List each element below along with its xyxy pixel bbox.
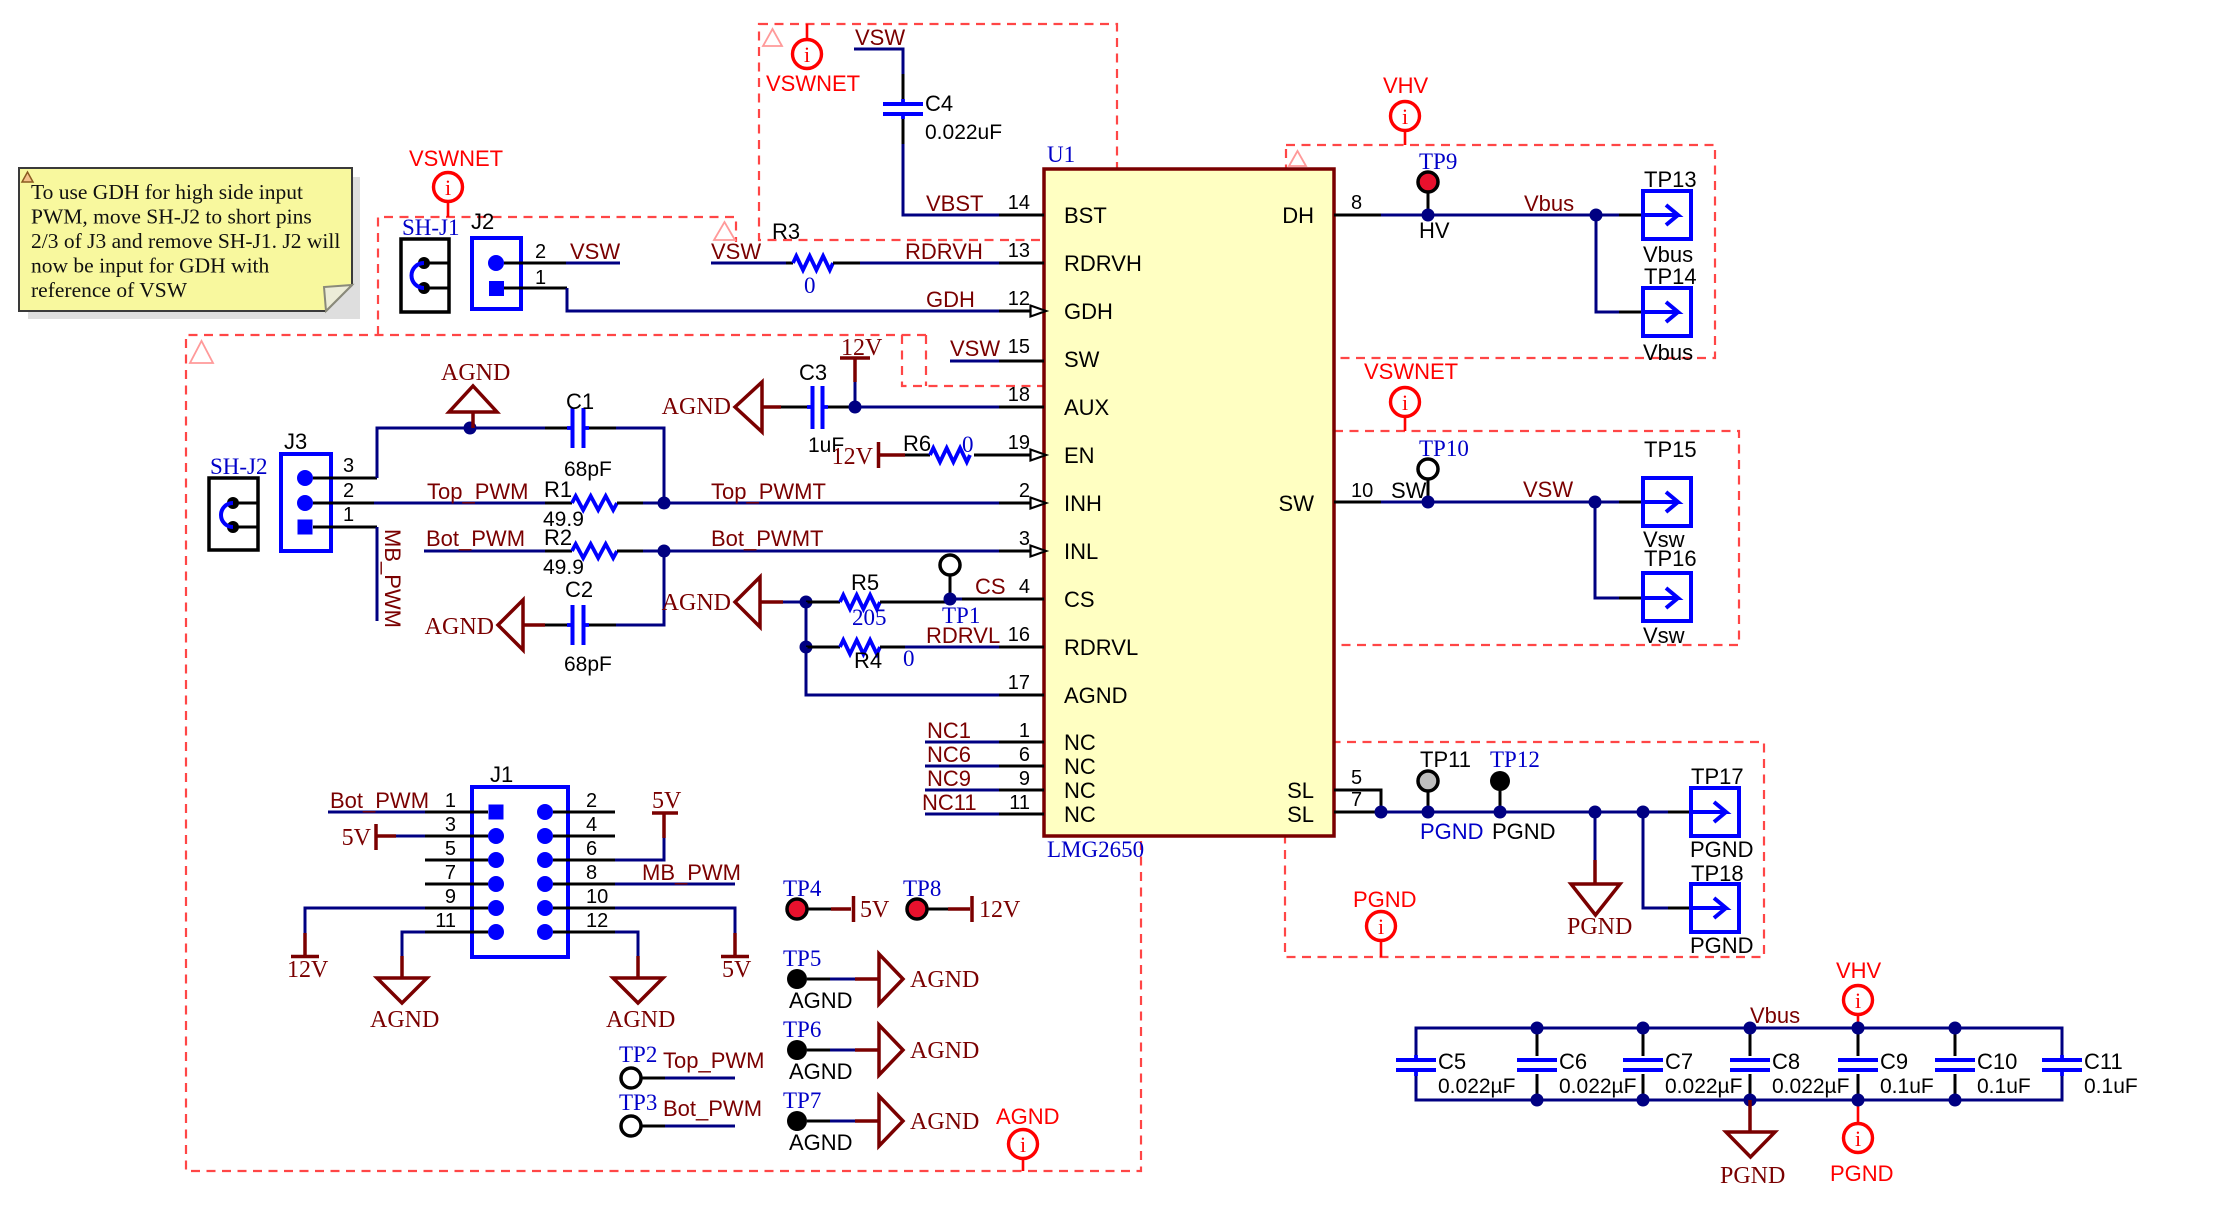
svg-text:INH: INH [1064,491,1102,516]
svg-text:PGND: PGND [1690,933,1754,958]
blanket region box PGND (SL) [1285,742,1764,957]
svg-text:NC6: NC6 [927,742,971,767]
svg-text:2: 2 [1019,480,1030,502]
svg-text:C10: C10 [1977,1049,2017,1074]
pin stub RDRVL 16 [999,646,1044,649]
svg-text:TP16: TP16 [1644,546,1697,571]
net class symbol VSWNET (SW box) [1404,416,1407,431]
svg-text:49.9: 49.9 [543,556,584,579]
wire VSW down to TP16 [1595,502,1619,598]
pin stub RDRVH 13 [999,262,1044,265]
J1 left pin stubs [425,811,488,814]
svg-text:C6: C6 [1559,1049,1587,1074]
svg-text:11: 11 [435,910,456,932]
pin stub NC 6 [999,765,1044,768]
svg-text:SW: SW [1279,491,1315,516]
junction SL pins [1375,806,1388,819]
svg-text:C9: C9 [1880,1049,1908,1074]
svg-text:AGND: AGND [789,988,853,1013]
capacitor C1 [545,427,567,430]
ground AGND (TP5, right arrow) [855,977,879,981]
svg-text:Top_PWM: Top_PWM [427,479,528,504]
svg-text:Vsw: Vsw [1643,623,1685,648]
pin stub NC 11 [999,813,1044,816]
svg-text:14: 14 [1008,192,1030,214]
svg-text:GDH: GDH [1064,299,1113,324]
pin stub NC 1 [999,741,1044,744]
svg-text:U1: U1 [1047,142,1075,167]
power symbol 12V (above C3) [840,356,870,360]
power symbol 5V (sideways, J1.3) [374,824,378,850]
svg-text:VSW: VSW [570,239,620,264]
svg-text:TP2: TP2 [619,1042,657,1067]
wire R4 to RDRVL pin [905,646,999,649]
svg-text:9: 9 [1019,768,1030,790]
resistor R2 [545,550,572,553]
svg-text:i: i [1855,1126,1861,1151]
svg-text:TP10: TP10 [1419,436,1469,461]
svg-text:VBST: VBST [926,191,983,216]
wire TP2 Top_PWM [665,1077,735,1080]
svg-text:8: 8 [1351,192,1362,214]
wire Bot_PWM to J1.1 [328,811,425,814]
svg-text:TP3: TP3 [619,1090,657,1115]
wire J1.12 to AGND [615,932,638,956]
svg-text:C4: C4 [925,91,953,116]
svg-text:NC: NC [1064,802,1096,827]
svg-text:12: 12 [586,910,608,932]
svg-text:5V: 5V [722,957,752,983]
svg-text:12V: 12V [979,897,1021,923]
svg-text:TP4: TP4 [783,876,822,901]
svg-text:8: 8 [586,862,597,884]
svg-text:BST: BST [1064,203,1107,228]
blanket region big box (AGND region) [186,335,1141,1171]
sticky note [19,168,352,311]
net class symbol VSWNET (top box) [806,24,809,40]
capacitor C7 [1642,1028,1645,1056]
svg-text:0.1uF: 0.1uF [1880,1075,1934,1098]
wire Bot_PWM to R2 [424,550,545,553]
svg-text:RDRVH: RDRVH [1064,251,1142,276]
svg-text:SH-J2: SH-J2 [210,454,268,479]
svg-text:SL: SL [1287,778,1314,803]
svg-text:VHV: VHV [1383,73,1429,98]
svg-text:NC9: NC9 [927,766,971,791]
svg-text:Vbus: Vbus [1643,340,1693,365]
svg-text:SW: SW [1064,347,1100,372]
svg-text:DH: DH [1282,203,1314,228]
svg-text:68pF: 68pF [564,653,612,676]
svg-text:GDH: GDH [926,287,975,312]
svg-text:5V: 5V [342,825,372,851]
svg-text:J1: J1 [490,762,513,787]
capacitor C2 [589,624,616,627]
wire R2 to INL pin [643,550,999,553]
junction TP17/18 split [1637,806,1650,819]
svg-text:PGND: PGND [1830,1161,1894,1186]
pin stub GDH 12 [999,310,1032,313]
svg-text:9: 9 [445,886,456,908]
svg-text:AGND: AGND [789,1130,853,1155]
svg-text:Bot_PWM: Bot_PWM [426,526,525,551]
svg-text:4: 4 [586,814,597,836]
wire Vbus down to TP14 [1596,215,1619,312]
svg-text:VSW: VSW [1523,477,1573,502]
ground AGND (TP7, right arrow) [855,1119,879,1123]
wire J3.3 up to C1 net [377,428,545,478]
svg-text:C7: C7 [1665,1049,1693,1074]
wire J1.8 MB_PWM [615,883,735,886]
svg-text:RDRVH: RDRVH [905,239,983,264]
wire TP3 Bot_PWM [665,1125,735,1128]
svg-text:NC: NC [1064,730,1096,755]
junction TP10/SW [1422,496,1435,509]
wire R1 to INH pin [643,502,999,505]
wire SL to PGND/TP17 [1381,811,1668,814]
svg-text:J3: J3 [284,429,307,454]
ground AGND (left of R5) [735,577,760,627]
svg-text:AGND: AGND [662,590,731,616]
svg-text:19: 19 [1008,432,1030,454]
svg-text:now be input for GDH with: now be input for GDH with [31,254,270,278]
net class symbol PGND (SL box) [1380,941,1383,957]
pin stub EN 19 with wire from R6 [974,454,1032,457]
ground AGND (below J1 left) [400,956,404,978]
svg-text:3: 3 [1019,528,1030,550]
wire INL junction down to C2 [616,551,664,625]
junction R5 left [800,596,813,609]
svg-text:16: 16 [1008,624,1030,646]
resistor R6 [905,454,930,457]
svg-text:2: 2 [586,790,597,812]
svg-text:Bot_PWM: Bot_PWM [663,1096,762,1121]
svg-text:1: 1 [1019,720,1030,742]
svg-text:12V: 12V [287,957,329,983]
svg-text:LMG2650: LMG2650 [1047,837,1144,862]
wire NC6 [925,765,999,768]
svg-text:17: 17 [1008,672,1030,694]
svg-text:Bot_PWMT: Bot_PWMT [711,526,823,551]
svg-text:R4: R4 [854,648,882,673]
svg-text:SL: SL [1287,802,1314,827]
note corner triangle [22,172,33,182]
capacitor C10 [1954,1028,1957,1056]
capacitor C5 [1396,1058,1436,1062]
svg-text:i: i [804,42,810,67]
ground AGND (left of C3) [735,382,762,432]
svg-text:7: 7 [445,862,456,884]
wire junction down to R4 [805,602,808,647]
svg-text:18: 18 [1008,384,1030,406]
svg-text:2/3 of J3 and remove SH-J1. J2: 2/3 of J3 and remove SH-J1. J2 will [31,229,340,253]
resistor R4 [806,646,840,649]
junction AUX/12V [849,401,862,414]
wire C1 right to INH net [616,428,664,503]
svg-text:NC1: NC1 [927,718,971,743]
test point TP1 [940,555,960,575]
svg-text:EN: EN [1064,443,1095,468]
svg-text:AGND: AGND [606,1007,675,1033]
net class symbol AGND (big box) [1022,1158,1025,1171]
svg-text:Top_PWM: Top_PWM [663,1048,764,1073]
svg-text:4: 4 [1019,576,1030,598]
svg-text:RDRVL: RDRVL [926,623,1000,648]
svg-text:0: 0 [903,646,915,671]
svg-text:RDRVL: RDRVL [1064,635,1138,660]
capacitor C3 [781,406,807,409]
svg-text:AGND: AGND [441,360,510,386]
net class symbol VHV (DH box) [1404,131,1407,145]
svg-text:AGND: AGND [425,614,494,640]
svg-text:CS: CS [975,574,1006,599]
svg-text:3: 3 [343,455,354,477]
svg-text:VSWNET: VSWNET [766,71,860,96]
svg-text:5V: 5V [652,788,682,814]
svg-text:To use GDH for high side input: To use GDH for high side input [31,180,303,204]
capacitor C11 [2042,1058,2082,1062]
svg-text:0: 0 [804,273,816,298]
wire 5V down to J1.6 [615,838,664,860]
svg-text:TP6: TP6 [783,1017,821,1042]
ground AGND (TP6, right arrow) [855,1048,879,1052]
pin stub NC 9 [999,789,1044,792]
svg-text:TP5: TP5 [783,946,821,971]
svg-text:C3: C3 [799,360,827,385]
wire VSW at J2 pin2 [566,262,620,265]
svg-text:5: 5 [1351,767,1362,789]
ground AGND (below J1 right) [636,956,640,978]
svg-text:MB_PWM: MB_PWM [642,860,741,885]
pin input arrow EN [1031,450,1047,461]
svg-text:Vbus: Vbus [1750,1003,1800,1028]
svg-text:2: 2 [535,241,546,263]
svg-text:C2: C2 [565,577,593,602]
svg-text:NC11: NC11 [922,790,977,815]
svg-text:Vbus: Vbus [1524,191,1574,216]
svg-text:C1: C1 [566,389,594,414]
svg-text:C11: C11 [2084,1049,2123,1074]
svg-text:i: i [1402,390,1408,415]
blanket region box VHV (DH/Vbus) [1286,145,1715,358]
note shadow [28,177,360,319]
net class symbol PGND (cap bank) [1857,1100,1860,1124]
svg-text:TP15: TP15 [1644,437,1697,462]
svg-text:TP13: TP13 [1644,167,1697,192]
power symbol 12V (sideways, R6) [877,442,881,468]
jumper SH-J1 [401,239,449,312]
svg-text:i: i [445,175,451,200]
svg-text:AGND: AGND [1064,683,1128,708]
svg-text:TP11: TP11 [1420,747,1471,772]
junction TP9/DH [1422,209,1435,222]
wire C3/12V to AUX pin [855,406,999,409]
wire SW to VSW [1381,501,1619,504]
junction TP1/CS [944,593,957,606]
svg-text:1: 1 [445,790,456,812]
wire VSW to C4 [854,49,903,74]
svg-text:6: 6 [586,838,597,860]
wire J1.10 to 5V [615,908,735,933]
svg-text:C8: C8 [1772,1049,1800,1074]
capacitor C4 [902,74,905,99]
pin stub SW 10 [1334,501,1381,504]
cap bank top bus Vbus [1416,1028,2062,1056]
svg-text:5V: 5V [860,897,890,923]
svg-text:MB_PWM: MB_PWM [380,529,405,628]
J1 right pin stubs [553,811,615,814]
svg-text:TP14: TP14 [1644,264,1697,289]
svg-text:13: 13 [1008,240,1030,262]
svg-text:AGND: AGND [910,1038,979,1064]
svg-text:AUX: AUX [1064,395,1110,420]
svg-text:AGND: AGND [662,394,731,420]
svg-text:TP8: TP8 [903,876,941,901]
svg-text:AGND: AGND [370,1007,439,1033]
connector J3 [281,454,331,551]
svg-text:Bot_PWM: Bot_PWM [330,788,429,813]
note dog-ear [324,285,352,311]
svg-text:NC: NC [1064,754,1096,779]
junction R4 left [800,641,813,654]
pin stub SL 7 [1334,811,1381,814]
svg-text:C5: C5 [1438,1049,1466,1074]
wire NC11 [925,813,999,816]
svg-text:VSWNET: VSWNET [409,146,503,171]
junction AGND stem / C1 wire [464,422,477,435]
capacitor C9 [1857,1028,1860,1056]
wire AGND net down to pin17 [806,647,999,695]
blanket region box VSWNET (SW/Vsw) [1334,431,1739,645]
pin stub AGND 17 [999,694,1044,697]
svg-text:i: i [1020,1132,1026,1157]
wire 12V to AUX junction [854,382,857,407]
svg-text:HV: HV [1419,218,1450,243]
svg-text:0.1uF: 0.1uF [2084,1075,2138,1098]
wire NC9 [925,789,999,792]
svg-text:R3: R3 [772,219,800,244]
svg-text:i: i [1402,104,1408,129]
svg-text:0.022µF: 0.022µF [1772,1075,1849,1098]
power symbol 12V (TP8) [948,907,970,911]
svg-text:SW: SW [1391,478,1427,503]
svg-text:TP9: TP9 [1419,149,1457,174]
svg-text:10: 10 [586,886,608,908]
svg-text:i: i [1855,988,1861,1013]
pin stub SW 15 [999,360,1044,363]
op-amp U1 IC body LMG2650 [1044,169,1334,836]
svg-text:2: 2 [343,480,354,502]
pin stub INL 3 [999,550,1032,553]
wire down to TP18 [1643,812,1668,908]
svg-text:TP7: TP7 [783,1088,821,1113]
svg-text:12: 12 [1008,288,1030,310]
svg-text:Top_PWMT: Top_PWMT [711,479,826,504]
power symbol 5V (TP4) [831,907,851,911]
power symbol 5V (below, J1.10) [733,933,737,956]
connector J2 [472,238,521,309]
svg-text:VSWNET: VSWNET [1364,359,1458,384]
svg-text:5: 5 [445,838,456,860]
junction INL/C2 [658,545,671,558]
wire J1.11 to AGND [402,932,425,956]
pin stub CS 4 [962,598,1044,601]
svg-text:205: 205 [852,605,887,630]
cap bank bottom bus [1416,1076,2062,1100]
svg-text:VSW: VSW [711,239,761,264]
svg-text:PGND: PGND [1492,819,1556,844]
svg-text:SH-J1: SH-J1 [402,215,460,240]
svg-text:reference of VSW: reference of VSW [31,278,188,302]
wire J1.9 to 12V [305,908,425,933]
svg-text:10: 10 [1351,480,1373,502]
junction VSW split [1589,496,1602,509]
ground PGND (down triangle) [1593,860,1597,884]
capacitor C8 [1749,1028,1752,1056]
svg-text:0: 0 [962,432,974,457]
wire Top_PWM J3.2 to R1 [374,502,545,505]
wire DH to Vbus [1381,214,1619,217]
svg-text:0.022µF: 0.022µF [1665,1075,1742,1098]
wire MB_PWM J3.1 down [376,527,379,621]
wire NC1 [925,741,999,744]
pin stub INH 2 [999,502,1032,505]
junction INH/C1 [658,497,671,510]
jumper SH-J2 [209,478,258,550]
resistor R3 [786,262,793,265]
svg-text:CS: CS [1064,587,1095,612]
pin stub DH 8 [1334,214,1381,217]
resistor R5 [806,601,840,604]
svg-text:R6: R6 [903,431,931,456]
svg-text:R5: R5 [851,570,879,595]
svg-text:AGND: AGND [910,1109,979,1135]
net label VSW (pin15) [950,360,999,363]
ground AGND (top, up arrow) [449,386,497,412]
svg-text:R1: R1 [544,477,572,502]
svg-text:TP12: TP12 [1490,747,1540,772]
svg-text:VHV: VHV [1836,958,1882,983]
svg-text:i: i [1378,914,1384,939]
wire R3 to RDRVH pin [860,262,999,265]
svg-text:1: 1 [535,267,546,289]
svg-text:12V: 12V [841,335,883,361]
wire J2 pin1 to GDH pin [567,288,999,311]
svg-text:PGND: PGND [1720,1163,1785,1189]
svg-text:0.022µF: 0.022µF [1559,1075,1636,1098]
svg-text:R2: R2 [544,525,572,550]
resistor R1 [545,502,572,505]
capacitor C6 [1536,1028,1539,1056]
pin stub BST 14 [999,214,1044,217]
svg-text:J2: J2 [471,209,494,234]
wire AGND to R5/R4 junctions [783,601,806,604]
svg-text:INL: INL [1064,539,1098,564]
svg-text:AGND: AGND [996,1104,1060,1129]
net class symbol VHV (cap bank) [1857,1014,1860,1028]
svg-text:PGND: PGND [1353,887,1417,912]
wire down to PGND ground [1594,812,1597,860]
svg-text:PGND: PGND [1690,837,1754,862]
svg-text:0.022uF: 0.022uF [925,121,1002,144]
svg-text:3: 3 [445,814,456,836]
blanket region box VSWNET (top, around C4) [759,24,1117,240]
junction Vbus split [1590,209,1603,222]
svg-text:15: 15 [1008,336,1030,358]
svg-text:0.1uF: 0.1uF [1977,1075,2031,1098]
svg-text:PGND: PGND [1420,819,1484,844]
svg-text:AGND: AGND [910,967,979,993]
